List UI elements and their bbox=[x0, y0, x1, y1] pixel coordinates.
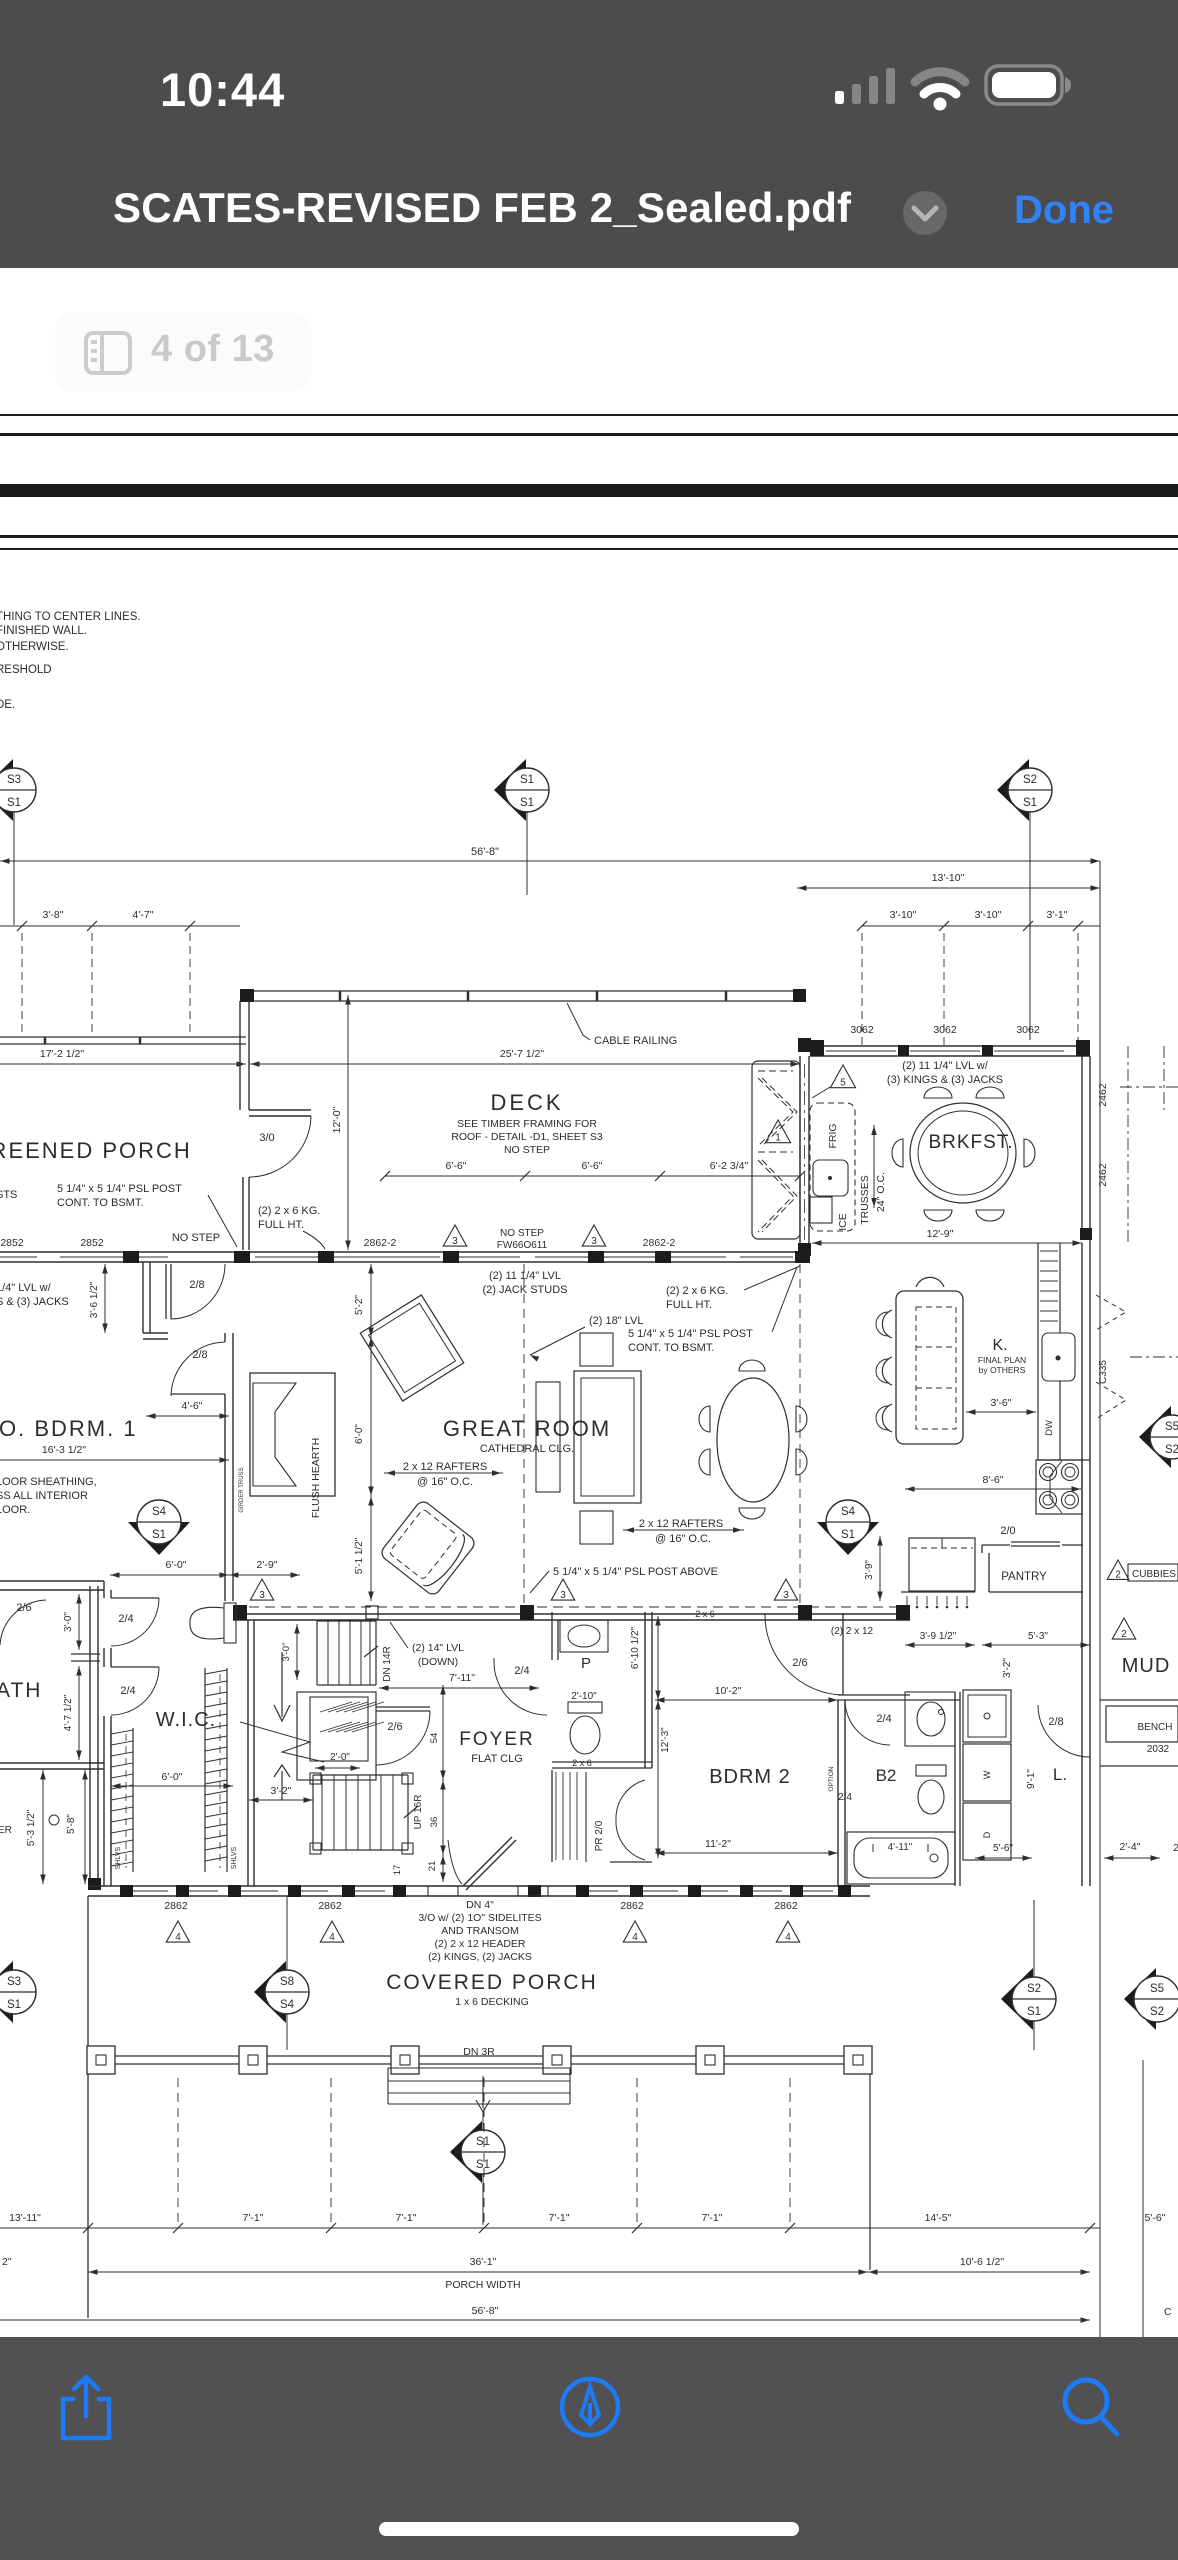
B2 vanity bbox=[905, 1692, 955, 1746]
svg-text:(2) 2 x 12 HEADER: (2) 2 x 12 HEADER bbox=[434, 1938, 525, 1950]
svg-text:3'-6 1/2": 3'-6 1/2" bbox=[89, 1281, 100, 1318]
dims 3-9.5 / 5-3 bbox=[905, 1644, 975, 1646]
dim 17-2 screened porch bbox=[0, 1063, 246, 1065]
porch posts bbox=[87, 2046, 115, 2074]
triangle keynote 4 windows bbox=[166, 1921, 189, 1942]
svg-text:S1: S1 bbox=[1023, 797, 1037, 809]
dim 3-6.5 vertical bbox=[104, 1264, 106, 1333]
svg-text:6'-0": 6'-0" bbox=[354, 1424, 365, 1444]
svg-text:OTHERWISE.: OTHERWISE. bbox=[0, 641, 69, 653]
svg-text:2'-4": 2'-4" bbox=[1120, 1841, 1141, 1853]
bdrm1 wall jog bbox=[142, 1262, 144, 1333]
svg-text:2": 2" bbox=[2, 2256, 12, 2268]
svg-text:PORCH WIDTH: PORCH WIDTH bbox=[445, 2279, 520, 2291]
svg-text:W: W bbox=[982, 1770, 992, 1779]
svg-text:13'-10": 13'-10" bbox=[932, 872, 965, 884]
search icon bbox=[1058, 2373, 1124, 2441]
sofa bbox=[574, 1371, 641, 1503]
svg-text:5 1/4" x 5 1/4" PSL POST: 5 1/4" x 5 1/4" PSL POST bbox=[57, 1183, 182, 1195]
small dims right top bbox=[862, 925, 1100, 927]
svg-text:COVERED PORCH: COVERED PORCH bbox=[386, 1971, 598, 1994]
dims bbox=[655, 1699, 838, 1701]
svg-text:DE.: DE. bbox=[0, 699, 15, 711]
svg-text:FW66O611: FW66O611 bbox=[497, 1240, 548, 1251]
svg-text:2462: 2462 bbox=[1097, 1163, 1109, 1187]
svg-text:by OTHERS: by OTHERS bbox=[979, 1365, 1026, 1375]
svg-text:4: 4 bbox=[329, 1932, 335, 1943]
battery bbox=[986, 66, 1071, 104]
svg-text:NO STEP: NO STEP bbox=[500, 1228, 544, 1239]
svg-text:CUBBIES: CUBBIES bbox=[1132, 1569, 1176, 1580]
middle wall bbox=[233, 1606, 910, 1608]
svg-text:3: 3 bbox=[783, 1590, 789, 1601]
svg-text:4'-6": 4'-6" bbox=[182, 1400, 203, 1412]
svg-text:STS: STS bbox=[0, 1189, 17, 1201]
B2 right wall bbox=[954, 1692, 956, 1886]
svg-text:S1: S1 bbox=[520, 797, 534, 809]
small dims left top bbox=[0, 925, 240, 927]
wic/stair wall bbox=[247, 1620, 249, 1886]
svg-text:DW: DW bbox=[1044, 1420, 1055, 1436]
centerline grid (dashed) bbox=[21, 933, 23, 1037]
svg-text:S3: S3 bbox=[7, 1976, 21, 1988]
svg-text:ROOF - DETAIL -D1, SHEET S3: ROOF - DETAIL -D1, SHEET S3 bbox=[451, 1131, 603, 1143]
stair arrows bbox=[281, 1652, 283, 1717]
svg-text:14'-5": 14'-5" bbox=[925, 2212, 952, 2224]
svg-text:BATH: BATH bbox=[0, 1679, 42, 1702]
svg-text:FINAL PLAN: FINAL PLAN bbox=[978, 1355, 1026, 1365]
svg-text:FLAT CLG: FLAT CLG bbox=[471, 1753, 523, 1765]
PR closet bbox=[551, 1770, 553, 1862]
svg-text:2862: 2862 bbox=[620, 1900, 644, 1912]
svg-text:S8: S8 bbox=[280, 1976, 294, 1988]
svg-text:2: 2 bbox=[1121, 1629, 1127, 1640]
svg-text:12'-9": 12'-9" bbox=[927, 1228, 954, 1240]
dim 4-6 bbox=[146, 1415, 229, 1417]
status bar bbox=[0, 0, 1178, 268]
deck door 3/0 bbox=[249, 1109, 311, 1111]
svg-text:(2) KINGS, (2) JACKS: (2) KINGS, (2) JACKS bbox=[428, 1951, 532, 1963]
svg-text:3: 3 bbox=[259, 1590, 265, 1601]
kitchen counter bbox=[1037, 1243, 1039, 1460]
svg-text:(2) JACK STUDS: (2) JACK STUDS bbox=[483, 1284, 568, 1296]
svg-text:(2) 2 x 6 KG.: (2) 2 x 6 KG. bbox=[666, 1285, 728, 1297]
svg-text:TRUSSES: TRUSSES bbox=[859, 1175, 871, 1225]
svg-text:7'-1": 7'-1" bbox=[549, 2212, 570, 2224]
section marker S2/S1 top-right bbox=[997, 759, 1029, 821]
triangle keynote 3 upper wall bbox=[443, 1225, 466, 1246]
4 of 13 pill bbox=[55, 312, 311, 392]
svg-text:6'-10 1/2": 6'-10 1/2" bbox=[630, 1626, 641, 1669]
dim 13-10 bbox=[797, 887, 1100, 889]
svg-text:2852: 2852 bbox=[80, 1237, 104, 1249]
svg-text:@ 16" O.C.: @ 16" O.C. bbox=[655, 1533, 711, 1545]
ICE bbox=[810, 1197, 832, 1223]
island bbox=[896, 1291, 963, 1444]
svg-text:5 1/4" x 5 1/4" PSL POST: 5 1/4" x 5 1/4" PSL POST bbox=[628, 1328, 753, 1340]
svg-text:D: D bbox=[982, 1831, 992, 1838]
svg-text:2862-2: 2862-2 bbox=[364, 1237, 397, 1249]
stair landing/closet bbox=[297, 1692, 376, 1780]
dim 25-7 bbox=[250, 1063, 800, 1065]
closet rods bbox=[110, 1728, 112, 1872]
svg-text:S1: S1 bbox=[841, 1529, 855, 1541]
svg-text:3'-10": 3'-10" bbox=[975, 909, 1002, 921]
svg-text:3'-10": 3'-10" bbox=[890, 909, 917, 921]
svg-text:C: C bbox=[1164, 2306, 1172, 2318]
svg-text:W.I.C.: W.I.C. bbox=[156, 1709, 216, 1731]
svg-text:UP 16R: UP 16R bbox=[413, 1795, 424, 1830]
svg-text:ER: ER bbox=[0, 1825, 12, 1836]
svg-text:5'-3 1/2": 5'-3 1/2" bbox=[26, 1809, 37, 1846]
dim 7-11 bbox=[379, 1687, 539, 1689]
bdrm2/b2 wall bbox=[837, 1700, 839, 1886]
svg-text:GREAT ROOM: GREAT ROOM bbox=[443, 1416, 611, 1441]
svg-text:DN 3R: DN 3R bbox=[463, 2046, 495, 2058]
svg-text:ICE: ICE bbox=[837, 1213, 849, 1231]
svg-text:5'-1 1/2": 5'-1 1/2" bbox=[354, 1537, 365, 1574]
chevron button bbox=[900, 188, 950, 238]
right border vertical bbox=[1142, 2060, 1144, 2337]
svg-text:(2) 2 x 6 KG.: (2) 2 x 6 KG. bbox=[258, 1205, 320, 1217]
svg-text:S5: S5 bbox=[1165, 1421, 1178, 1433]
svg-text:3'-9 1/2": 3'-9 1/2" bbox=[920, 1631, 957, 1642]
cab doors dashed bbox=[1096, 1295, 1126, 1330]
svg-text:16'-3 1/2": 16'-3 1/2" bbox=[42, 1444, 87, 1456]
svg-text:SS ALL INTERIOR: SS ALL INTERIOR bbox=[0, 1490, 88, 1502]
svg-text:2 x 6: 2 x 6 bbox=[572, 1758, 592, 1768]
svg-text:NO STEP: NO STEP bbox=[172, 1232, 220, 1244]
deck interior dims 6-6 bbox=[385, 1175, 800, 1177]
dim 56-8 top bbox=[0, 860, 1100, 862]
svg-text:3: 3 bbox=[591, 1236, 597, 1247]
svg-text:21: 21 bbox=[427, 1861, 438, 1872]
svg-text:SCREENED PORCH: SCREENED PORCH bbox=[0, 1138, 192, 1163]
cable railing note bbox=[567, 1003, 590, 1040]
svg-text:S1: S1 bbox=[520, 774, 534, 786]
svg-text:CONT. TO BSMT.: CONT. TO BSMT. bbox=[57, 1197, 143, 1209]
svg-text:5'-6": 5'-6" bbox=[1145, 2212, 1166, 2224]
svg-text:DN 14R: DN 14R bbox=[382, 1646, 393, 1682]
svg-text:S2: S2 bbox=[1165, 1444, 1178, 1456]
keynote 3 triangles middle bbox=[250, 1579, 273, 1600]
svg-text:2/4: 2/4 bbox=[838, 1792, 852, 1803]
svg-text:(2) 18" LVL: (2) 18" LVL bbox=[589, 1315, 643, 1327]
door 2/8 lower bbox=[171, 1342, 225, 1396]
grill cabinet with folding doors bbox=[752, 1061, 800, 1239]
svg-text:24" O.C.: 24" O.C. bbox=[875, 1172, 887, 1212]
svg-text:2/6: 2/6 bbox=[387, 1721, 402, 1733]
shower bbox=[963, 1690, 1011, 1742]
dining table bbox=[717, 1378, 789, 1502]
section marker S1/S1 top-middle bbox=[494, 759, 526, 821]
svg-text:CABLE RAILING: CABLE RAILING bbox=[594, 1035, 677, 1047]
sink bbox=[1042, 1333, 1075, 1381]
svg-text:5'-3": 5'-3" bbox=[1028, 1631, 1048, 1642]
front door bbox=[463, 1837, 512, 1886]
svg-text:2'-9": 2'-9" bbox=[257, 1559, 278, 1571]
left exterior wall bbox=[89, 1586, 91, 1886]
svg-text:K.: K. bbox=[992, 1337, 1007, 1354]
brkfst window wall bbox=[810, 1045, 1090, 1047]
svg-text:S3: S3 bbox=[7, 774, 21, 786]
svg-text:PR 2/0: PR 2/0 bbox=[594, 1820, 605, 1851]
dims wic bbox=[111, 1785, 233, 1787]
svg-text:DECK: DECK bbox=[490, 1090, 563, 1115]
svg-text:C335: C335 bbox=[1098, 1360, 1109, 1384]
svg-text:7'-11": 7'-11" bbox=[449, 1672, 475, 1684]
svg-text:25'-7 1/2": 25'-7 1/2" bbox=[500, 1048, 545, 1060]
svg-text:3/0: 3/0 bbox=[259, 1132, 274, 1144]
wifi icon bbox=[915, 72, 965, 111]
svg-text:S5: S5 bbox=[1150, 1983, 1164, 1995]
bath right wall lower bbox=[103, 1716, 105, 1886]
svg-text:4: 4 bbox=[785, 1932, 791, 1943]
svg-text:SHLVS: SHLVS bbox=[115, 1846, 122, 1869]
svg-text:LOOR SHEATHING,: LOOR SHEATHING, bbox=[0, 1476, 97, 1488]
svg-text:17'-2 1/2": 17'-2 1/2" bbox=[40, 1048, 85, 1060]
brkfst right wall bbox=[1081, 1056, 1083, 1240]
svg-text:3: 3 bbox=[452, 1236, 458, 1247]
svg-text:2 x 12 RAFTERS: 2 x 12 RAFTERS bbox=[639, 1518, 723, 1530]
svg-text:13'-11": 13'-11" bbox=[9, 2212, 41, 2224]
section marker S3/S1 top-left bbox=[0, 759, 13, 821]
stair dim 3-0 bbox=[296, 1624, 298, 1680]
svg-text:O. BDRM. 1: O. BDRM. 1 bbox=[0, 1416, 138, 1441]
lower flight UP16R bbox=[312, 1775, 314, 1850]
svg-text:4'-11": 4'-11" bbox=[888, 1842, 913, 1853]
bench bbox=[1100, 1699, 1178, 1701]
dim 12-0 vertical bbox=[347, 995, 349, 1250]
bottom toolbar bbox=[0, 2337, 1178, 2560]
svg-text:3062: 3062 bbox=[1016, 1024, 1040, 1036]
svg-text:11'-2": 11'-2" bbox=[705, 1838, 731, 1850]
svg-text:6'-6": 6'-6" bbox=[446, 1160, 467, 1172]
svg-text:2: 2 bbox=[1115, 1569, 1121, 1580]
door sidelites bbox=[428, 1886, 458, 1896]
svg-text:12'-3": 12'-3" bbox=[660, 1727, 671, 1753]
svg-text:RESHOLD: RESHOLD bbox=[0, 664, 52, 676]
kitchen right wall bbox=[1081, 1243, 1083, 1612]
deck top railing bbox=[240, 990, 806, 992]
svg-text:GIRDER TRUSS: GIRDER TRUSS bbox=[239, 1467, 245, 1512]
svg-text:SEE TIMBER FRAMING FOR: SEE TIMBER FRAMING FOR bbox=[457, 1118, 597, 1130]
dryer bbox=[963, 1803, 1011, 1860]
svg-text:FULL HT.: FULL HT. bbox=[258, 1219, 304, 1231]
svg-text:(DOWN): (DOWN) bbox=[418, 1656, 458, 1668]
svg-text:BENCH: BENCH bbox=[1137, 1722, 1172, 1733]
svg-text:4'-7 1/2": 4'-7 1/2" bbox=[63, 1694, 74, 1731]
svg-text:S4: S4 bbox=[152, 1506, 167, 1518]
svg-text:(2) 2 x 12: (2) 2 x 12 bbox=[831, 1626, 874, 1637]
deck left wall bbox=[239, 1001, 241, 1110]
marker S5/S2 right edge bbox=[1139, 1406, 1171, 1468]
svg-text:OPTION: OPTION bbox=[828, 1766, 835, 1791]
P walls bbox=[644, 1612, 646, 1768]
svg-text:5: 5 bbox=[840, 1077, 846, 1088]
svg-text:2032: 2032 bbox=[1147, 1744, 1170, 1755]
sheet edge lines bbox=[0, 414, 1178, 416]
range bbox=[1036, 1460, 1082, 1514]
wc top wall bbox=[52, 1580, 104, 1582]
svg-text:1 x 6 DECKING: 1 x 6 DECKING bbox=[455, 1996, 529, 2008]
svg-text:2862-2: 2862-2 bbox=[643, 1237, 676, 1249]
svg-text:2852: 2852 bbox=[0, 1237, 24, 1249]
svg-text:54: 54 bbox=[429, 1733, 440, 1744]
svg-text:4'-7": 4'-7" bbox=[133, 909, 154, 921]
bath bottom wall bbox=[0, 1762, 104, 1764]
svg-text:2 x 12 RAFTERS: 2 x 12 RAFTERS bbox=[403, 1461, 487, 1473]
markup icon bbox=[558, 2375, 622, 2439]
porch edge bbox=[88, 2055, 870, 2057]
svg-text:S4: S4 bbox=[280, 1999, 295, 2011]
svg-text:5'-6": 5'-6" bbox=[993, 1843, 1013, 1854]
flush hearth fireplace bbox=[250, 1373, 335, 1496]
cell signal bars bbox=[835, 68, 895, 104]
svg-text:FULL HT.: FULL HT. bbox=[666, 1299, 712, 1311]
marker S1/S1 porch bbox=[482, 2112, 484, 2225]
dim 3-9 vertical bbox=[879, 1536, 881, 1601]
svg-text:2862: 2862 bbox=[164, 1900, 188, 1912]
svg-text:12'-0": 12'-0" bbox=[331, 1106, 343, 1133]
svg-text:FOYER: FOYER bbox=[459, 1729, 534, 1750]
svg-text:S1: S1 bbox=[1027, 2006, 1041, 2018]
svg-text:2862: 2862 bbox=[774, 1900, 798, 1912]
bottom exterior wall bbox=[88, 1885, 870, 1887]
svg-text:SHLVS: SHLVS bbox=[231, 1846, 238, 1869]
sofa console bbox=[536, 1382, 560, 1492]
screened porch railing bbox=[0, 1036, 246, 1038]
dim 36-1 porch width bbox=[88, 2271, 868, 2273]
dim 3-6 bbox=[966, 1411, 1036, 1413]
svg-text:AND TRANSOM: AND TRANSOM bbox=[441, 1925, 518, 1937]
svg-text:(2) 11 1/4" LVL: (2) 11 1/4" LVL bbox=[489, 1270, 561, 1282]
sofa table top bbox=[580, 1333, 613, 1366]
svg-text:1: 1 bbox=[775, 1132, 781, 1143]
svg-text:3062: 3062 bbox=[933, 1024, 957, 1036]
svg-text:36: 36 bbox=[429, 1817, 440, 1828]
svg-text:(2) 11 1/4" LVL w/: (2) 11 1/4" LVL w/ bbox=[902, 1060, 989, 1072]
porch centerlines bbox=[177, 2078, 179, 2228]
svg-text:4: 4 bbox=[632, 1932, 638, 1943]
svg-text:S1: S1 bbox=[7, 797, 21, 809]
svg-text:S1: S1 bbox=[152, 1529, 166, 1541]
svg-text:5'-8": 5'-8" bbox=[66, 1814, 77, 1834]
svg-text:2 x 6: 2 x 6 bbox=[695, 1609, 715, 1619]
svg-text:2'-10": 2'-10" bbox=[571, 1691, 597, 1702]
B2 walls bbox=[838, 1694, 910, 1696]
svg-text:6'-0": 6'-0" bbox=[162, 1771, 183, 1783]
dim 12-4 bbox=[812, 1242, 1082, 1244]
svg-text:B2: B2 bbox=[876, 1766, 897, 1785]
svg-text:6'-0": 6'-0" bbox=[166, 1559, 187, 1571]
markers porch row bbox=[0, 1961, 13, 2023]
svg-text:10'-6 1/2": 10'-6 1/2" bbox=[960, 2256, 1005, 2268]
svg-text:17: 17 bbox=[392, 1865, 403, 1876]
svg-text:9'-1": 9'-1" bbox=[1026, 1769, 1037, 1789]
door 2/8 upper bbox=[165, 1264, 167, 1319]
svg-text:3/O w/ (2) 1O" SIDELITES: 3/O w/ (2) 1O" SIDELITES bbox=[418, 1912, 541, 1924]
wall by grill bbox=[799, 1056, 801, 1246]
svg-text:S1: S1 bbox=[7, 1999, 21, 2011]
svg-text:5'-2": 5'-2" bbox=[354, 1295, 365, 1315]
svg-text:FINISHED WALL.: FINISHED WALL. bbox=[0, 625, 87, 637]
marker S4/S1 left bbox=[128, 1522, 190, 1555]
svg-text:2/0: 2/0 bbox=[1000, 1525, 1015, 1537]
dim 3-0 vertical bbox=[78, 1594, 80, 1650]
bath pier wall bbox=[103, 1648, 105, 1667]
svg-text:3'-8": 3'-8" bbox=[43, 909, 64, 921]
svg-text:P: P bbox=[581, 1655, 591, 1672]
svg-text:2'-0": 2'-0" bbox=[330, 1752, 350, 1763]
svg-text:3'-1": 3'-1" bbox=[1047, 909, 1068, 921]
svg-text:3'-2": 3'-2" bbox=[1002, 1658, 1013, 1678]
floor plan SVG inserted here bbox=[0, 550, 1178, 2337]
svg-text:56'-8": 56'-8" bbox=[472, 2305, 499, 2317]
svg-text:PANTRY: PANTRY bbox=[1001, 1571, 1047, 1583]
svg-text:1/4" LVL w/: 1/4" LVL w/ bbox=[0, 1282, 52, 1294]
share icon bbox=[55, 2372, 117, 2444]
svg-text:3: 3 bbox=[560, 1590, 566, 1601]
svg-text:BDRM 2: BDRM 2 bbox=[709, 1766, 791, 1788]
FRIG bbox=[810, 1103, 855, 1231]
svg-text:S4: S4 bbox=[841, 1506, 856, 1518]
svg-text:S2: S2 bbox=[1023, 774, 1037, 786]
svg-text:5 1/4" x 5 1/4" PSL POST ABOVE: 5 1/4" x 5 1/4" PSL POST ABOVE bbox=[553, 1566, 718, 1578]
svg-text:MUD: MUD bbox=[1122, 1655, 1171, 1677]
svg-text:S2: S2 bbox=[1027, 1983, 1041, 1995]
svg-text:2/4: 2/4 bbox=[120, 1685, 135, 1697]
P toilet bbox=[568, 1702, 602, 1713]
dim 8-6 bbox=[905, 1488, 1081, 1490]
triangle keynote 1 bbox=[765, 1120, 790, 1143]
svg-text:FRIG: FRIG bbox=[827, 1123, 839, 1148]
svg-text:3'-0": 3'-0" bbox=[281, 1643, 292, 1662]
svg-text:(2) 14" LVL: (2) 14" LVL bbox=[412, 1642, 464, 1654]
stair upper flight bbox=[316, 1621, 318, 1685]
door 2/6 stair bbox=[376, 1706, 430, 1708]
svg-text:3'-9": 3'-9" bbox=[864, 1560, 875, 1580]
svg-text:CONT. TO BSMT.: CONT. TO BSMT. bbox=[628, 1342, 714, 1354]
rug angled bbox=[360, 1295, 463, 1401]
svg-text:2/4: 2/4 bbox=[514, 1665, 529, 1677]
svg-text:2862: 2862 bbox=[318, 1900, 342, 1912]
svg-text:3'-2": 3'-2" bbox=[271, 1785, 292, 1797]
left vertical dims bbox=[42, 1770, 44, 1884]
interior wall great room/bdrm1 bbox=[224, 1394, 226, 1601]
stools bbox=[882, 1310, 892, 1338]
triangle keynote 2 kitchen bbox=[1107, 1560, 1129, 1579]
dim row porch bbox=[0, 2227, 1100, 2229]
svg-text:7'-1": 7'-1" bbox=[396, 2212, 417, 2224]
svg-text:LOOR.: LOOR. bbox=[0, 1504, 30, 1516]
main wall with windows 2852/2862 bbox=[0, 1251, 810, 1253]
svg-text:3062: 3062 bbox=[850, 1024, 874, 1036]
svg-text:4: 4 bbox=[175, 1932, 181, 1943]
wc toilet bbox=[224, 1603, 236, 1643]
svg-text:10'-2": 10'-2" bbox=[715, 1685, 742, 1697]
marker S4/S1 right bbox=[817, 1522, 879, 1555]
svg-text:@ 16" O.C.: @ 16" O.C. bbox=[417, 1476, 473, 1488]
triangle keynote 2 right bbox=[1112, 1618, 1135, 1639]
svg-text:S & (3) JACKS: S & (3) JACKS bbox=[0, 1296, 69, 1308]
vertical dims right of hearth bbox=[370, 1264, 372, 1337]
svg-text:THING TO CENTER LINES.: THING TO CENTER LINES. bbox=[0, 611, 141, 623]
tub bbox=[847, 1832, 955, 1884]
dim 56-8 bottom bbox=[0, 2319, 1090, 2321]
washer bbox=[963, 1744, 1011, 1801]
svg-text:S1: S1 bbox=[476, 2159, 490, 2171]
